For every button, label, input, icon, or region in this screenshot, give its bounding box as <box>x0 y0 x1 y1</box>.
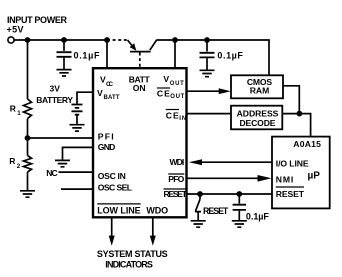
svg-text:WDI: WDI <box>170 157 185 167</box>
svg-text:3V: 3V <box>49 84 60 94</box>
svg-text:I/O LINE: I/O LINE <box>276 159 309 169</box>
svg-text:V: V <box>97 88 103 98</box>
svg-text:CC: CC <box>106 82 114 88</box>
svg-text:SYSTEM STATUS: SYSTEM STATUS <box>97 249 168 259</box>
svg-text:GND: GND <box>98 142 116 152</box>
svg-text:0.1µF: 0.1µF <box>217 51 243 61</box>
svg-text:IN: IN <box>179 116 186 122</box>
svg-text:RESET: RESET <box>203 206 229 216</box>
svg-text:BATT: BATT <box>104 95 120 101</box>
svg-text:2: 2 <box>17 163 21 170</box>
svg-text:NMI: NMI <box>276 175 294 185</box>
svg-text:RESET: RESET <box>276 189 305 199</box>
svg-text:1: 1 <box>17 110 21 117</box>
svg-text:WDO: WDO <box>146 206 168 216</box>
svg-text:INDICATORS: INDICATORS <box>105 259 153 269</box>
svg-text:µP: µP <box>308 171 321 182</box>
svg-text:OUT: OUT <box>170 94 184 100</box>
svg-text:A0A15: A0A15 <box>293 139 321 149</box>
svg-text:DECODE: DECODE <box>240 118 276 128</box>
svg-text:OSC IN: OSC IN <box>98 171 126 181</box>
svg-text:RESET: RESET <box>164 189 188 199</box>
svg-text:OSC SEL: OSC SEL <box>98 183 132 193</box>
svg-text:+5V: +5V <box>7 25 24 35</box>
svg-text:V: V <box>163 74 169 84</box>
svg-text:NC: NC <box>46 168 58 178</box>
svg-text:PFO: PFO <box>168 174 184 184</box>
svg-text:ON: ON <box>133 83 146 93</box>
svg-text:LOW LINE: LOW LINE <box>97 206 141 216</box>
svg-text:R: R <box>9 156 15 166</box>
svg-text:RAM: RAM <box>250 86 270 96</box>
svg-text:0.1µF: 0.1µF <box>246 212 270 222</box>
svg-text:INPUT POWER: INPUT POWER <box>7 15 68 25</box>
svg-text:CE: CE <box>157 89 170 99</box>
svg-text:R: R <box>10 103 16 113</box>
svg-text:PFI: PFI <box>98 132 114 142</box>
svg-text:ADDRESS: ADDRESS <box>237 109 279 119</box>
svg-text:OUT: OUT <box>170 81 184 87</box>
svg-text:0.1µF: 0.1µF <box>74 50 101 60</box>
svg-text:CE: CE <box>166 110 179 120</box>
svg-text:BATTERY: BATTERY <box>36 95 73 105</box>
